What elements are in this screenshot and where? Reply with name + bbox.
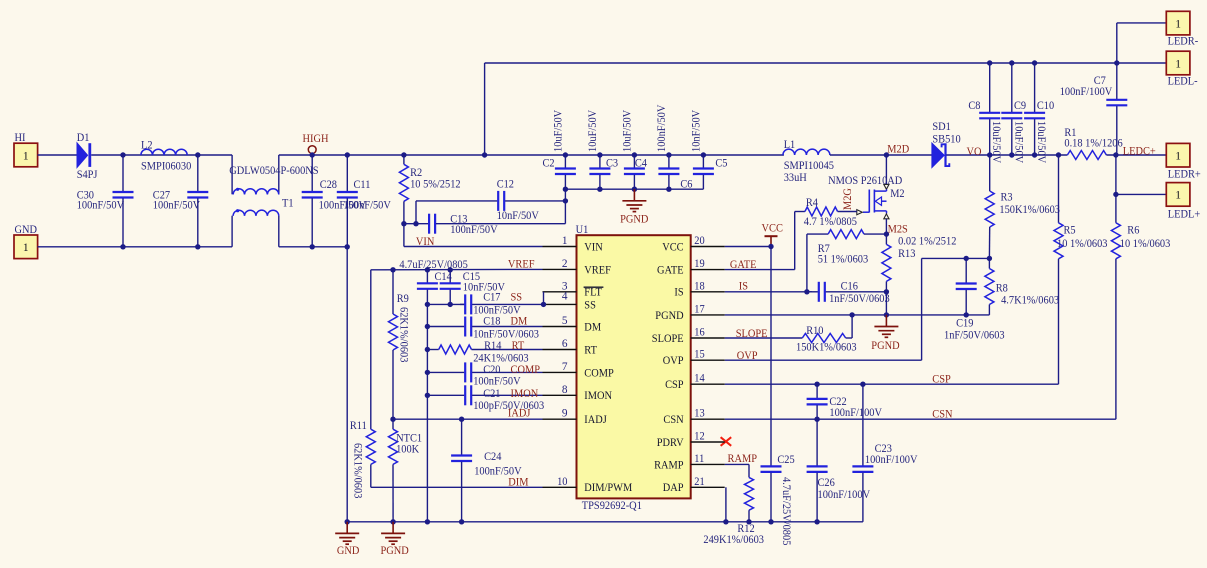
svg-text:5: 5: [562, 315, 568, 327]
svg-text:M2S: M2S: [888, 224, 908, 236]
junction input rail: [120, 152, 200, 157]
svg-text:10uF/50V: 10uF/50V: [990, 121, 1002, 164]
capacitor C8: [968, 63, 1002, 164]
svg-text:100nF/100V: 100nF/100V: [865, 454, 918, 466]
svg-text:IMON: IMON: [511, 388, 539, 400]
wire VREF drop to R11: [370, 270, 372, 429]
svg-text:PGND: PGND: [381, 545, 409, 557]
svg-text:GATE: GATE: [730, 259, 757, 271]
svg-text:VIN: VIN: [584, 241, 603, 253]
svg-text:C9: C9: [1014, 100, 1026, 112]
wire HIGH rail: [279, 154, 784, 156]
svg-text:DM: DM: [584, 321, 601, 333]
svg-text:HIGH: HIGH: [303, 133, 329, 145]
svg-text:C8: C8: [968, 100, 980, 112]
svg-text:10 1%/0603: 10 1%/0603: [1120, 238, 1171, 250]
svg-text:62K1%/0603: 62K1%/0603: [398, 307, 410, 363]
svg-text:C18: C18: [483, 316, 501, 328]
svg-text:7: 7: [562, 361, 568, 373]
pin arrow M2 drain: [884, 184, 889, 189]
wire GATE net: [725, 212, 805, 270]
svg-text:9: 9: [562, 408, 568, 420]
junction GND rail: [120, 244, 350, 249]
svg-text:L2: L2: [141, 139, 153, 151]
power flag VCC: [762, 223, 783, 247]
junction OVP: [964, 256, 993, 261]
svg-text:4: 4: [562, 291, 568, 303]
wire IADJ row: [390, 407, 542, 422]
capacitor C4: [622, 109, 648, 189]
svg-text:RAMP: RAMP: [654, 459, 684, 471]
connector LEDL-: [1166, 51, 1198, 87]
svg-text:10nF/50V/0603: 10nF/50V/0603: [473, 329, 539, 341]
svg-text:HI: HI: [15, 132, 26, 144]
svg-text:IADJ: IADJ: [584, 414, 607, 426]
label OVP: [737, 350, 758, 362]
svg-text:R5: R5: [1064, 224, 1076, 236]
svg-text:1: 1: [1175, 18, 1181, 30]
svg-text:DIM/PWM: DIM/PWM: [584, 482, 632, 494]
svg-text:LEDC+: LEDC+: [1123, 146, 1156, 158]
svg-text:249K1%/0603: 249K1%/0603: [703, 534, 764, 546]
svg-text:1: 1: [1175, 190, 1181, 202]
svg-text:VO: VO: [967, 146, 982, 158]
svg-text:4.7uF/25V/0805: 4.7uF/25V/0805: [399, 259, 468, 271]
wire LEDR- lead: [1117, 23, 1167, 63]
svg-text:VIN: VIN: [416, 236, 435, 248]
svg-text:R10: R10: [806, 325, 824, 337]
svg-text:1: 1: [562, 235, 568, 247]
svg-text:1: 1: [23, 150, 29, 162]
wire SS row: [425, 302, 466, 307]
capacitor C23: [852, 384, 918, 522]
ground GND bottom: [335, 522, 359, 557]
resistor R14: [425, 340, 543, 364]
wire M2 drain: [885, 155, 887, 185]
resistor R9: [389, 270, 410, 419]
svg-text:10nF/50V: 10nF/50V: [497, 210, 540, 222]
svg-text:CSN: CSN: [663, 414, 683, 426]
resistor R6: [1111, 155, 1170, 419]
svg-text:0.02 1%/2512: 0.02 1%/2512: [898, 236, 957, 248]
svg-text:12: 12: [694, 431, 705, 443]
capacitor C21: [425, 385, 545, 412]
capacitor C3: [587, 109, 618, 189]
svg-text:LEDR-: LEDR-: [1168, 35, 1199, 47]
inductor L2: [141, 139, 192, 172]
svg-text:C4: C4: [635, 157, 647, 169]
svg-text:C20: C20: [483, 364, 501, 376]
resistor R7: [807, 230, 887, 292]
svg-text:1: 1: [1175, 58, 1181, 70]
capacitor C20: [425, 362, 543, 387]
svg-text:C11: C11: [354, 179, 371, 191]
svg-text:4.7K1%/0603: 4.7K1%/0603: [1001, 295, 1059, 307]
junction HIGH rail: [310, 152, 707, 157]
svg-text:RAMP: RAMP: [728, 453, 758, 465]
svg-text:GND: GND: [15, 224, 38, 236]
svg-text:C26: C26: [818, 477, 836, 489]
svg-text:IMON: IMON: [584, 390, 612, 402]
svg-text:CSP: CSP: [932, 374, 951, 386]
svg-text:PGND: PGND: [871, 340, 899, 352]
pin arrow M2 source: [884, 214, 889, 219]
svg-text:M2D: M2D: [887, 143, 909, 155]
svg-text:R9: R9: [397, 293, 409, 305]
capacitor C22: [807, 384, 883, 419]
connector LEDR+: [1166, 143, 1201, 180]
svg-text:OVP: OVP: [663, 355, 684, 367]
svg-text:DM: DM: [511, 316, 528, 328]
svg-text:C17: C17: [483, 291, 501, 303]
resistor R13: [882, 234, 957, 292]
capacitor C25: [761, 247, 796, 546]
node M2D: [884, 143, 910, 157]
resistor R2: [399, 155, 461, 224]
svg-text:SB510: SB510: [932, 134, 961, 146]
junction top rail: [987, 60, 1120, 65]
svg-text:VCC: VCC: [662, 241, 683, 253]
svg-text:CSP: CSP: [665, 379, 684, 391]
wire VIN row: [416, 236, 435, 248]
svg-text:OVP: OVP: [737, 350, 758, 362]
capacitor C7: [1060, 63, 1128, 155]
svg-text:PDRV: PDRV: [657, 437, 685, 449]
svg-text:COMP: COMP: [511, 364, 541, 376]
label CSP: [932, 374, 951, 386]
wire M2 source: [885, 219, 887, 234]
wire LEDL- lead: [1117, 62, 1167, 64]
svg-text:150K1%/0603: 150K1%/0603: [796, 341, 857, 353]
svg-text:DIM: DIM: [508, 476, 528, 488]
junction bottom rail: [345, 519, 820, 524]
capacitor C6: [656, 104, 693, 191]
svg-text:33uH: 33uH: [784, 172, 807, 184]
svg-text:CSN: CSN: [932, 409, 952, 421]
label GATE: [730, 259, 757, 271]
svg-text:2: 2: [562, 258, 568, 270]
capacitor C15: [399, 259, 505, 305]
svg-text:13: 13: [694, 408, 705, 420]
svg-text:10uF/50V: 10uF/50V: [1035, 121, 1047, 164]
capacitor C18: [425, 316, 543, 341]
svg-text:100nF/50V: 100nF/50V: [344, 200, 392, 212]
wire IS to PGND: [884, 289, 889, 315]
wire DIM row: [371, 476, 543, 488]
svg-text:4.7 1%/0805: 4.7 1%/0805: [804, 216, 857, 228]
svg-text:R14: R14: [484, 340, 502, 352]
svg-text:18: 18: [694, 280, 705, 292]
wire FLT-SS bracket: [541, 292, 546, 307]
svg-text:100nF/50V: 100nF/50V: [656, 104, 668, 152]
svg-text:C24: C24: [484, 451, 502, 463]
label SLOPE: [736, 328, 768, 340]
wire VCC net: [725, 244, 774, 249]
ground PGND right: [871, 315, 899, 352]
wire D1 to T1: [91, 154, 232, 156]
svg-text:C14: C14: [435, 271, 453, 283]
svg-text:SS: SS: [511, 291, 523, 303]
svg-text:DAP: DAP: [663, 482, 684, 494]
svg-text:PGND: PGND: [620, 214, 648, 226]
power flag HIGH: [303, 133, 329, 153]
svg-text:11: 11: [694, 453, 704, 465]
svg-text:TPS92692-Q1: TPS92692-Q1: [582, 500, 642, 512]
svg-text:1: 1: [23, 242, 29, 254]
svg-text:C16: C16: [841, 281, 859, 293]
svg-text:C12: C12: [497, 179, 515, 191]
label IS: [739, 280, 748, 292]
label M2G: [842, 188, 854, 210]
svg-text:10uF/50V: 10uF/50V: [622, 109, 634, 152]
svg-text:RT: RT: [584, 344, 597, 356]
svg-text:1nF/50V/0603: 1nF/50V/0603: [829, 293, 890, 305]
IC pins with numbers: [543, 235, 725, 488]
resistor R10: [725, 315, 857, 354]
ground PGND bottom: [381, 522, 409, 557]
svg-text:R4: R4: [806, 197, 818, 209]
svg-text:C2: C2: [543, 157, 555, 169]
resistor R8: [985, 258, 1060, 315]
svg-text:21: 21: [694, 476, 704, 488]
diode D1: [77, 132, 98, 181]
capacitor C11: [337, 155, 392, 247]
wire C12 C13 to PGND rail: [563, 189, 568, 224]
svg-text:GDLW0504P-600NS: GDLW0504P-600NS: [229, 165, 318, 177]
svg-text:4.7uF/25V/0805: 4.7uF/25V/0805: [780, 477, 792, 546]
capacitor C27: [153, 155, 209, 247]
svg-text:10 5%/2512: 10 5%/2512: [410, 179, 461, 191]
svg-text:R2: R2: [410, 167, 422, 179]
wire top rail riser: [484, 63, 486, 155]
svg-text:R13: R13: [898, 248, 916, 260]
svg-text:20: 20: [694, 235, 705, 247]
svg-text:S4PJ: S4PJ: [77, 169, 98, 181]
resistor R4: [804, 197, 857, 228]
svg-text:R6: R6: [1127, 224, 1139, 236]
svg-text:17: 17: [694, 303, 705, 315]
capacitor C12: [416, 179, 565, 224]
wire VREF net: [371, 259, 543, 273]
wire HI to D1: [38, 154, 78, 156]
wire GND rail left: [38, 246, 348, 248]
svg-text:1: 1: [1175, 151, 1181, 163]
connector LEDR-: [1166, 11, 1198, 47]
svg-text:R11: R11: [350, 420, 367, 432]
svg-text:LEDL+: LEDL+: [1168, 209, 1200, 221]
resistor R1: [1064, 127, 1166, 159]
svg-text:62K1%/0603: 62K1%/0603: [352, 443, 364, 499]
svg-text:100nF/50V: 100nF/50V: [450, 224, 498, 236]
svg-text:100nF/100V: 100nF/100V: [1060, 86, 1113, 98]
svg-text:IS: IS: [739, 280, 748, 292]
wire top rail: [485, 62, 1117, 64]
svg-text:M2G: M2G: [842, 188, 854, 210]
resistor R3: [985, 155, 1060, 258]
svg-text:NMOS P2610AD: NMOS P2610AD: [828, 175, 902, 187]
no-connect X pin12: [721, 437, 732, 446]
svg-text:T1: T1: [282, 198, 294, 210]
svg-text:100nF/50V: 100nF/50V: [77, 200, 125, 212]
svg-text:SLOPE: SLOPE: [736, 328, 768, 340]
svg-text:R8: R8: [996, 283, 1008, 295]
transistor M2: [828, 175, 905, 214]
wire CSP net: [725, 382, 1059, 387]
capacitor C10: [1024, 63, 1054, 164]
svg-text:100nF/50V: 100nF/50V: [473, 376, 521, 388]
wire GND drop: [346, 247, 348, 522]
label RAMP: [728, 453, 758, 465]
wire VO rail: [946, 154, 1067, 156]
svg-text:SLOPE: SLOPE: [652, 333, 684, 345]
wire bottom rail: [347, 521, 863, 523]
svg-text:LEDR+: LEDR+: [1168, 168, 1201, 180]
svg-text:15: 15: [694, 349, 705, 361]
node LEDC+: [1113, 146, 1156, 158]
svg-text:100nF/50V: 100nF/50V: [153, 200, 201, 212]
svg-text:100K: 100K: [396, 443, 420, 455]
svg-text:10uF/50V: 10uF/50V: [587, 109, 599, 152]
svg-text:LEDL-: LEDL-: [1168, 75, 1198, 87]
wire left bus: [426, 304, 428, 521]
svg-text:VREF: VREF: [508, 259, 535, 271]
svg-text:10uF/50V: 10uF/50V: [1012, 121, 1024, 164]
node VO: [967, 146, 1062, 158]
capacitor C13: [404, 213, 566, 236]
capacitor C19: [944, 258, 1005, 341]
svg-text:IS: IS: [674, 287, 683, 299]
svg-text:C21: C21: [483, 388, 500, 400]
svg-text:SS: SS: [584, 299, 596, 311]
svg-text:COMP: COMP: [584, 367, 614, 379]
svg-text:D1: D1: [77, 132, 90, 144]
pin arrow M2 gate: [857, 210, 863, 215]
svg-text:VREF: VREF: [584, 264, 611, 276]
connector GND: [14, 224, 38, 259]
capacitor C28: [302, 155, 367, 247]
svg-text:10uF/50V: 10uF/50V: [553, 109, 565, 152]
capacitor C24: [451, 419, 522, 522]
wire DAP net: [725, 487, 727, 522]
svg-text:51 1%/0603: 51 1%/0603: [818, 253, 869, 265]
svg-text:C25: C25: [777, 454, 795, 466]
svg-text:8: 8: [562, 384, 568, 396]
resistor R5: [1054, 155, 1108, 384]
svg-text:6: 6: [562, 338, 568, 350]
wire OVP net: [725, 258, 990, 360]
label CSN: [932, 409, 952, 421]
inductor L1: [783, 139, 834, 184]
connector HI: [14, 132, 38, 167]
svg-text:C19: C19: [956, 317, 974, 329]
junction C2-C6 bottom: [563, 187, 672, 192]
wire PGND net: [725, 312, 990, 317]
capacitor C5: [691, 109, 728, 189]
wire CSN net: [725, 417, 1116, 422]
wire IS net: [725, 289, 812, 294]
svg-text:C5: C5: [715, 157, 727, 169]
resistor R11: [350, 420, 375, 499]
svg-text:IADJ: IADJ: [508, 407, 531, 419]
svg-text:PGND: PGND: [655, 310, 683, 322]
svg-text:10nF/50V: 10nF/50V: [691, 109, 703, 152]
svg-text:0.18 1%/1206: 0.18 1%/1206: [1064, 138, 1123, 150]
svg-text:RT: RT: [512, 340, 525, 352]
node M2S: [884, 224, 908, 237]
svg-text:14: 14: [694, 373, 705, 385]
svg-text:SMPI06030: SMPI06030: [141, 160, 192, 172]
svg-text:GATE: GATE: [657, 265, 684, 277]
svg-text:L1: L1: [784, 139, 796, 151]
svg-text:C3: C3: [606, 157, 618, 169]
wire C2-C6 bottom rail: [565, 188, 703, 190]
wire L1 to SD1: [830, 154, 932, 156]
svg-text:10 1%/0603: 10 1%/0603: [1057, 238, 1108, 250]
wire RAMP net: [725, 464, 749, 477]
svg-text:100nF/100V: 100nF/100V: [829, 407, 882, 419]
svg-text:C28: C28: [320, 179, 338, 191]
capacitor C9: [1001, 63, 1026, 164]
capacitor C26: [807, 419, 871, 522]
svg-text:19: 19: [694, 258, 705, 270]
capacitor C16: [807, 281, 890, 305]
resistor R12: [703, 477, 764, 546]
wire VIN: [401, 221, 542, 247]
svg-text:150K1%/0603: 150K1%/0603: [999, 204, 1060, 216]
capacitor C14: [417, 270, 452, 305]
svg-text:R3: R3: [1001, 192, 1013, 204]
op-amp U1 TPS92692-Q1 body: [576, 224, 691, 512]
svg-text:24K1%/0603: 24K1%/0603: [473, 353, 529, 365]
diode SD1: [932, 121, 961, 168]
ground PGND mid: [620, 189, 648, 225]
svg-text:M2: M2: [890, 188, 905, 200]
svg-text:C10: C10: [1037, 100, 1055, 112]
capacitor C30: [77, 155, 134, 247]
svg-text:16: 16: [694, 327, 705, 339]
svg-text:GND: GND: [337, 545, 360, 557]
svg-text:U1: U1: [576, 224, 589, 236]
capacitor C2: [543, 109, 576, 189]
svg-text:VCC: VCC: [762, 223, 783, 235]
svg-text:FLT: FLT: [584, 287, 602, 299]
capacitor C17: [460, 291, 544, 316]
wire LEDL+ lead: [1113, 192, 1166, 197]
svg-text:SD1: SD1: [932, 121, 951, 133]
svg-text:10: 10: [557, 476, 568, 488]
transformer T1: [229, 155, 318, 247]
svg-text:1nF/50V/0603: 1nF/50V/0603: [944, 329, 1005, 341]
connector LEDL+: [1166, 183, 1200, 221]
svg-text:SMPI10045: SMPI10045: [784, 160, 835, 172]
thermistor NTC1: [389, 419, 423, 522]
